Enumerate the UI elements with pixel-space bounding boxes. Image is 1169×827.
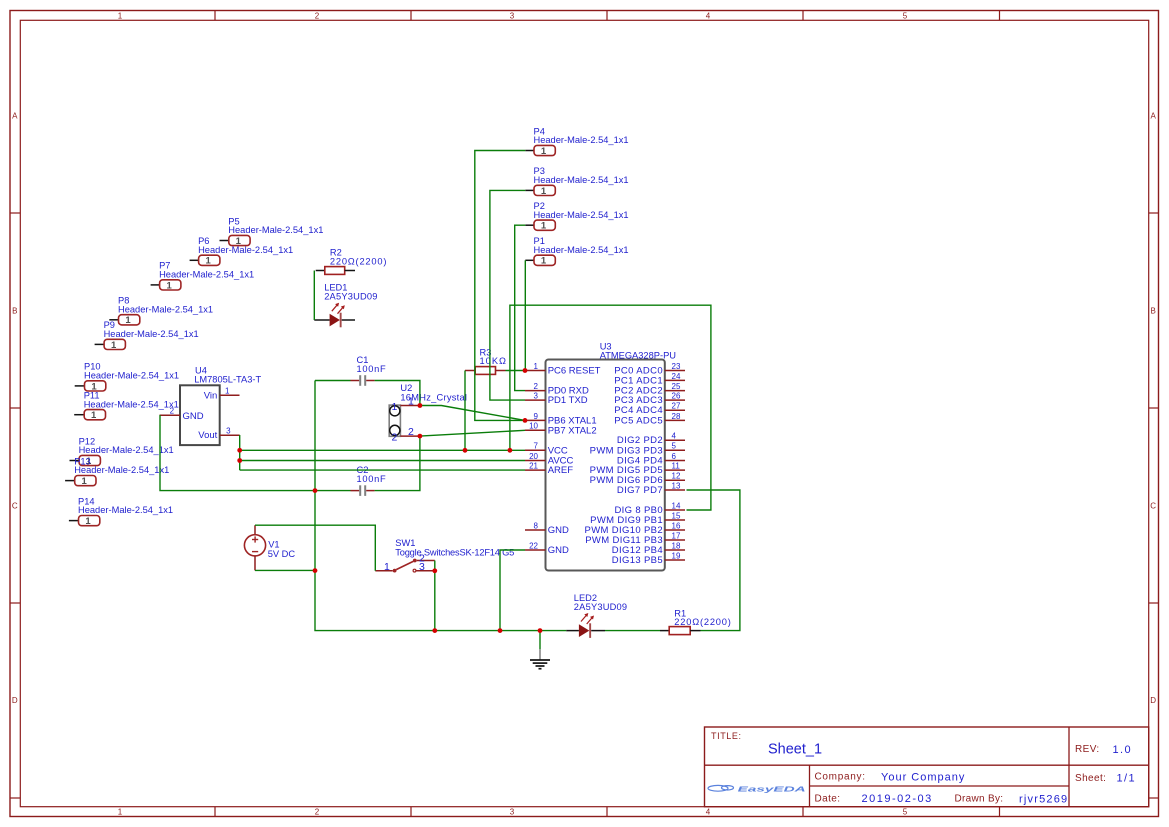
- svg-text:1: 1: [541, 256, 547, 267]
- label P9: [104, 320, 199, 339]
- svg-text:Header-Male-2.54_1x1: Header-Male-2.54_1x1: [159, 270, 254, 280]
- svg-text:Header-Male-2.54_1x1: Header-Male-2.54_1x1: [534, 210, 629, 220]
- junction VCC rail: [237, 448, 242, 453]
- wire AVCC rail to U3 pin 20: [240, 460, 525, 462]
- svg-text:8: 8: [534, 521, 539, 530]
- svg-text:Header-Male-2.54_1x1: Header-Male-2.54_1x1: [228, 225, 323, 235]
- wire ground bus to U3 pin 22 GND: [500, 550, 525, 631]
- svg-text:Header-Male-2.54_1x1: Header-Male-2.54_1x1: [534, 135, 629, 145]
- svg-text:3: 3: [534, 392, 539, 401]
- svg-text:4: 4: [706, 11, 711, 20]
- resistor R1: [660, 627, 701, 635]
- U3 pin 21 AREF: [525, 462, 546, 471]
- wire SW1 pin 2/3 to ground bus: [434, 561, 436, 631]
- U2 pin 2: [392, 426, 420, 444]
- svg-text:1: 1: [541, 146, 547, 157]
- capacitor C1 100nF: [351, 375, 375, 386]
- svg-text:1: 1: [91, 410, 97, 421]
- svg-text:REV:: REV:: [1075, 744, 1100, 755]
- svg-text:1.0: 1.0: [1113, 744, 1133, 756]
- svg-text:AREF: AREF: [548, 465, 574, 476]
- svg-text:Header-Male-2.54_1x1: Header-Male-2.54_1x1: [118, 304, 213, 314]
- svg-text:PD1 TXD: PD1 TXD: [548, 395, 588, 406]
- svg-text:1: 1: [166, 280, 172, 291]
- svg-text:19: 19: [672, 551, 681, 560]
- svg-text:3: 3: [510, 807, 515, 816]
- U3 pin 14 DIG 8 PB0: [665, 501, 685, 510]
- connector P1 Header-Male-2.54_1x1: [525, 255, 555, 267]
- wire P3 to U3 pin 3 PD1: [490, 190, 525, 400]
- svg-text:28: 28: [672, 412, 681, 421]
- svg-text:2: 2: [392, 431, 398, 443]
- svg-text:14: 14: [672, 501, 681, 510]
- svg-text:3: 3: [226, 426, 231, 435]
- wire LED2 to R1: [605, 630, 660, 632]
- label LED1 2A5Y3UD09: [324, 283, 377, 302]
- svg-text:B: B: [1151, 307, 1156, 316]
- junction GND rail / main vertical: [313, 488, 318, 493]
- label U4: [194, 366, 261, 385]
- connector P8 Header-Male-2.54_1x1: [109, 315, 140, 327]
- svg-text:Header-Male-2.54_1x1: Header-Male-2.54_1x1: [534, 175, 629, 185]
- svg-text:22: 22: [529, 541, 538, 550]
- svg-text:1: 1: [534, 362, 539, 371]
- svg-text:2: 2: [315, 807, 320, 816]
- U3 pin 19 DIG13 PB5: [665, 551, 685, 560]
- wire main vertical node: [315, 381, 566, 631]
- wire C1 left to node: [315, 380, 351, 382]
- label U2 16MHz_Crystal: [400, 383, 467, 402]
- wire R3 left to VCC rail: [464, 371, 466, 451]
- LED LED2: [566, 613, 605, 638]
- U3 pin 5 PWM DIG3 PD3: [665, 442, 685, 451]
- junction U2 pin 2 / C2: [418, 434, 423, 439]
- svg-text:2A5Y3UD09: 2A5Y3UD09: [574, 602, 627, 612]
- microcontroller U3 ATMEGA328P-PU: [546, 360, 665, 571]
- svg-text:15: 15: [672, 511, 681, 520]
- U3 pin 4 DIG2 PD2: [665, 432, 685, 441]
- svg-text:12: 12: [672, 472, 681, 481]
- svg-text:3: 3: [510, 11, 515, 20]
- junction SW1 pin 3 output: [432, 568, 437, 573]
- svg-text:100nF: 100nF: [357, 474, 387, 484]
- U3 pin 24 PC1 ADC1: [665, 372, 685, 381]
- label P6: [198, 236, 293, 255]
- svg-text:Your Company: Your Company: [881, 772, 965, 784]
- svg-text:100nF: 100nF: [357, 364, 387, 374]
- svg-text:1: 1: [392, 401, 398, 413]
- svg-text:1: 1: [541, 186, 547, 197]
- svg-text:26: 26: [672, 392, 681, 401]
- wire P1 to U3 pin 1 RESET: [524, 260, 526, 370]
- svg-text:1: 1: [125, 315, 131, 326]
- svg-text:GND: GND: [183, 411, 204, 422]
- capacitor C2 100nF: [351, 485, 375, 496]
- connector P3 Header-Male-2.54_1x1: [525, 185, 555, 197]
- svg-text:5: 5: [672, 442, 677, 451]
- voltage regulator U4 LM7805L-TA3-T: [180, 385, 220, 445]
- svg-text:1: 1: [205, 256, 211, 267]
- connector P4 Header-Male-2.54_1x1: [525, 145, 555, 157]
- U3 pin 18 DIG12 PB4: [665, 541, 685, 550]
- U3 pin 25 PC2 ADC2: [665, 382, 685, 391]
- svg-text:LM7805L-TA3-T: LM7805L-TA3-T: [194, 374, 261, 384]
- crystal U2 16MHz: [389, 405, 400, 436]
- ground symbol: [530, 631, 550, 669]
- svg-text:1: 1: [225, 386, 230, 395]
- label P11: [84, 391, 179, 410]
- connector P7 Header-Male-2.54_1x1: [151, 280, 181, 292]
- svg-text:Header-Male-2.54_1x1: Header-Male-2.54_1x1: [78, 505, 173, 515]
- resistor R3: [465, 367, 506, 375]
- connector P14 Header-Male-2.54_1x1: [69, 516, 100, 528]
- U3 pin 16 PWM DIG10 PB2: [665, 521, 685, 530]
- svg-text:220Ω(2200): 220Ω(2200): [674, 617, 731, 627]
- svg-text:GND: GND: [548, 525, 569, 536]
- svg-text:10: 10: [529, 422, 538, 431]
- svg-text:2: 2: [534, 382, 539, 391]
- svg-text:2A5Y3UD09: 2A5Y3UD09: [324, 291, 377, 301]
- U2 pin 1: [392, 395, 420, 413]
- svg-text:TITLE:: TITLE:: [711, 731, 742, 741]
- svg-text:20: 20: [529, 452, 538, 461]
- label P2: [534, 201, 629, 220]
- wire R2 to LED1: [313, 271, 315, 321]
- U4 pin 3 Vout: [220, 426, 240, 435]
- label P7: [159, 261, 254, 280]
- svg-text:2019-02-03: 2019-02-03: [862, 793, 933, 805]
- U3 pin 28 PC5 ADC5: [665, 412, 685, 421]
- label SW1 Toggle Switches: [395, 538, 514, 557]
- junction ground symbol / ground bus: [538, 628, 543, 633]
- svg-text:11: 11: [672, 462, 681, 471]
- svg-text:Vout: Vout: [198, 430, 217, 441]
- junction pin22 wire / ground bus: [498, 628, 503, 633]
- junction U3 pin 9 / P4 / U2: [523, 418, 528, 423]
- label P12: [79, 436, 174, 455]
- label P5: [228, 216, 323, 235]
- U3 pin 7 VCC: [525, 442, 546, 451]
- wire V1 minus to ground node: [255, 569, 315, 571]
- label LED2 2A5Y3UD09: [574, 593, 627, 612]
- svg-text:17: 17: [672, 531, 681, 540]
- svg-text:DIG7 PD7: DIG7 PD7: [617, 485, 663, 496]
- wire V1 plus to SW1 pin 1: [255, 525, 375, 571]
- svg-text:PC5 ADC5: PC5 ADC5: [614, 415, 663, 426]
- svg-text:16: 16: [672, 521, 681, 530]
- U3 pin 3 PD1 TXD: [525, 392, 546, 401]
- svg-text:6: 6: [672, 452, 677, 461]
- label U3 ATMEGA328P-PU: [600, 342, 676, 361]
- svg-text:Sheet_1: Sheet_1: [768, 742, 822, 758]
- wire U4 Vout to power rails: [239, 435, 241, 470]
- svg-text:Toggle SwitchesSK-12F14 G5: Toggle SwitchesSK-12F14 G5: [395, 547, 514, 557]
- svg-text:2: 2: [315, 11, 320, 20]
- wire C1 right to U2 pin 1: [375, 381, 420, 406]
- svg-text:PB7 XTAL2: PB7 XTAL2: [548, 425, 597, 436]
- svg-text:Company:: Company:: [815, 772, 866, 783]
- svg-text:ATMEGA328P-PU: ATMEGA328P-PU: [600, 351, 676, 361]
- connector P2 Header-Male-2.54_1x1: [525, 220, 555, 232]
- connector P10 Header-Male-2.54_1x1: [75, 381, 106, 393]
- svg-text:1/1: 1/1: [1117, 773, 1137, 785]
- wire U4 GND to C2 left rail: [160, 415, 351, 491]
- svg-text:25: 25: [672, 382, 681, 391]
- svg-text:23: 23: [672, 362, 681, 371]
- svg-text:21: 21: [529, 462, 538, 471]
- svg-text:Drawn By:: Drawn By:: [955, 794, 1004, 805]
- svg-text:27: 27: [672, 402, 681, 411]
- connector P5 Header-Male-2.54_1x1: [220, 235, 251, 247]
- svg-text:2: 2: [170, 407, 175, 416]
- svg-text:A: A: [1151, 112, 1157, 121]
- voltage source V1 5V DC: [244, 525, 265, 570]
- svg-text:1: 1: [111, 340, 117, 351]
- wire R1 to U3 pin 13 PD7: [687, 490, 740, 631]
- svg-text:Header-Male-2.54_1x1: Header-Male-2.54_1x1: [84, 371, 179, 381]
- svg-text:7: 7: [534, 442, 539, 451]
- wire AREF rail to U3 pin 21: [240, 469, 525, 471]
- U3 pin 9 PB6 XTAL1: [525, 412, 546, 421]
- svg-text:2: 2: [408, 426, 414, 438]
- svg-text:3: 3: [419, 561, 425, 573]
- svg-text:B: B: [12, 307, 17, 316]
- wire U2 pin 2 to U3 pin 10 XTAL2: [420, 430, 525, 436]
- connector P11 Header-Male-2.54_1x1: [74, 410, 105, 422]
- wire U3 pin 14 PB0 to VCC rail: [510, 305, 711, 510]
- junction V1 minus / main vertical: [313, 568, 318, 573]
- U3 pin 22 GND: [525, 541, 546, 550]
- svg-text:C: C: [12, 502, 18, 511]
- svg-text:24: 24: [672, 372, 681, 381]
- svg-text:16MHz_Crystal: 16MHz_Crystal: [400, 392, 467, 402]
- svg-text:PC6 RESET: PC6 RESET: [548, 366, 601, 377]
- label P13: [74, 456, 169, 475]
- label V1 5V DC: [268, 540, 296, 559]
- U3 pin 8 GND: [525, 521, 546, 530]
- label R2 220Ω(2200): [330, 248, 387, 267]
- label P8: [118, 296, 213, 315]
- junction U2 pin 1 / C1: [418, 403, 423, 408]
- U3 pin 23 PC0 ADC0: [665, 362, 685, 371]
- svg-text:Header-Male-2.54_1x1: Header-Male-2.54_1x1: [74, 465, 169, 475]
- svg-text:D: D: [12, 696, 18, 705]
- U3 pin 17 PWM DIG11 PB3: [665, 531, 685, 540]
- svg-text:10KΩ: 10KΩ: [480, 356, 508, 366]
- U3 pin 10 PB7 XTAL2: [525, 422, 546, 431]
- junction PB0 wire / VCC rail: [508, 448, 513, 453]
- junction AVCC rail: [237, 458, 242, 463]
- svg-text:5V DC: 5V DC: [268, 549, 296, 559]
- svg-text:5: 5: [903, 807, 908, 816]
- label R3 10KΩ: [480, 347, 508, 366]
- svg-text:1: 1: [118, 807, 123, 816]
- label P1: [534, 236, 629, 255]
- svg-text:Vin: Vin: [204, 390, 218, 401]
- U3 pin 13 DIG7 PD7: [665, 481, 685, 490]
- junction SW1 wire / ground bus: [432, 628, 437, 633]
- LED LED1: [314, 303, 355, 328]
- svg-text:1: 1: [85, 516, 91, 527]
- svg-text:rjvr5269: rjvr5269: [1019, 794, 1068, 806]
- U3 pin 15 PWM DIG9 PB1: [665, 511, 685, 520]
- wire U2 pin 2 to C2 right: [375, 436, 420, 491]
- wire VCC rail to U3 pin 7: [240, 449, 525, 451]
- toggle switch SW1: [375, 559, 435, 573]
- svg-text:5: 5: [903, 11, 908, 20]
- svg-text:Header-Male-2.54_1x1: Header-Male-2.54_1x1: [198, 245, 293, 255]
- U3 pin 1 PC6 RESET: [525, 362, 546, 371]
- svg-text:D: D: [1150, 696, 1156, 705]
- svg-text:Header-Male-2.54_1x1: Header-Male-2.54_1x1: [104, 329, 199, 339]
- connector P9 Header-Male-2.54_1x1: [95, 339, 126, 351]
- U3 pin 2 PD0 RXD: [525, 382, 546, 391]
- svg-text:A: A: [12, 112, 18, 121]
- U4 pin 2 GND: [160, 407, 181, 416]
- label P10: [84, 362, 179, 381]
- label P14: [78, 496, 173, 515]
- svg-text:1: 1: [384, 561, 390, 573]
- svg-text:EasyEDA: EasyEDA: [738, 784, 806, 793]
- svg-text:1: 1: [118, 11, 123, 20]
- junction R3 vertical / VCC rail: [463, 448, 468, 453]
- U3 pin 27 PC4 ADC4: [665, 402, 685, 411]
- wire P2 to U3 pin 2 PD0: [515, 225, 526, 390]
- svg-text:1: 1: [82, 476, 88, 487]
- svg-text:DIG13 PB5: DIG13 PB5: [612, 555, 663, 566]
- svg-text:1: 1: [541, 221, 547, 232]
- svg-text:Header-Male-2.54_1x1: Header-Male-2.54_1x1: [84, 399, 179, 409]
- svg-text:4: 4: [672, 432, 677, 441]
- svg-text:Date:: Date:: [815, 794, 841, 805]
- junction U3 pin 1 / P1 / R3: [523, 368, 528, 373]
- label R1 220Ω(2200): [674, 608, 731, 627]
- svg-text:18: 18: [672, 541, 681, 550]
- connector P6 Header-Male-2.54_1x1: [190, 255, 220, 267]
- label P4: [534, 126, 629, 145]
- connector P13 Header-Male-2.54_1x1: [65, 476, 96, 488]
- U3 pin 12 PWM DIG6 PD6: [665, 472, 685, 481]
- svg-text:4: 4: [706, 807, 711, 816]
- U3 pin 6 DIG4 PD4: [665, 452, 685, 461]
- SW1 pin numbers: [384, 552, 425, 573]
- svg-text:220Ω(2200): 220Ω(2200): [330, 256, 387, 266]
- svg-text:Sheet:: Sheet:: [1075, 773, 1106, 784]
- resistor R2: [316, 267, 355, 275]
- U3 pin 11 PWM DIG5 PD5: [665, 462, 685, 471]
- U4 pin 1 Vin: [220, 386, 240, 395]
- U3 pin 20 AVCC: [525, 452, 546, 461]
- svg-text:GND: GND: [548, 545, 569, 556]
- svg-text:Header-Male-2.54_1x1: Header-Male-2.54_1x1: [534, 245, 629, 255]
- wire U2 pin 1 to U3 pin 9 XTAL1: [420, 406, 525, 421]
- wire P4 to U3 pin 9 XTAL1: [475, 151, 526, 421]
- wire R3 right to U3 pin 1: [506, 370, 526, 372]
- label C2 100nF: [357, 465, 387, 484]
- U3 pin 26 PC3 ADC3: [665, 392, 685, 401]
- svg-text:C: C: [1150, 502, 1156, 511]
- svg-text:13: 13: [672, 481, 681, 490]
- label P3: [534, 166, 629, 185]
- svg-text:9: 9: [534, 412, 539, 421]
- label C1 100nF: [357, 355, 387, 374]
- connector P12 Header-Male-2.54_1x1: [70, 455, 101, 467]
